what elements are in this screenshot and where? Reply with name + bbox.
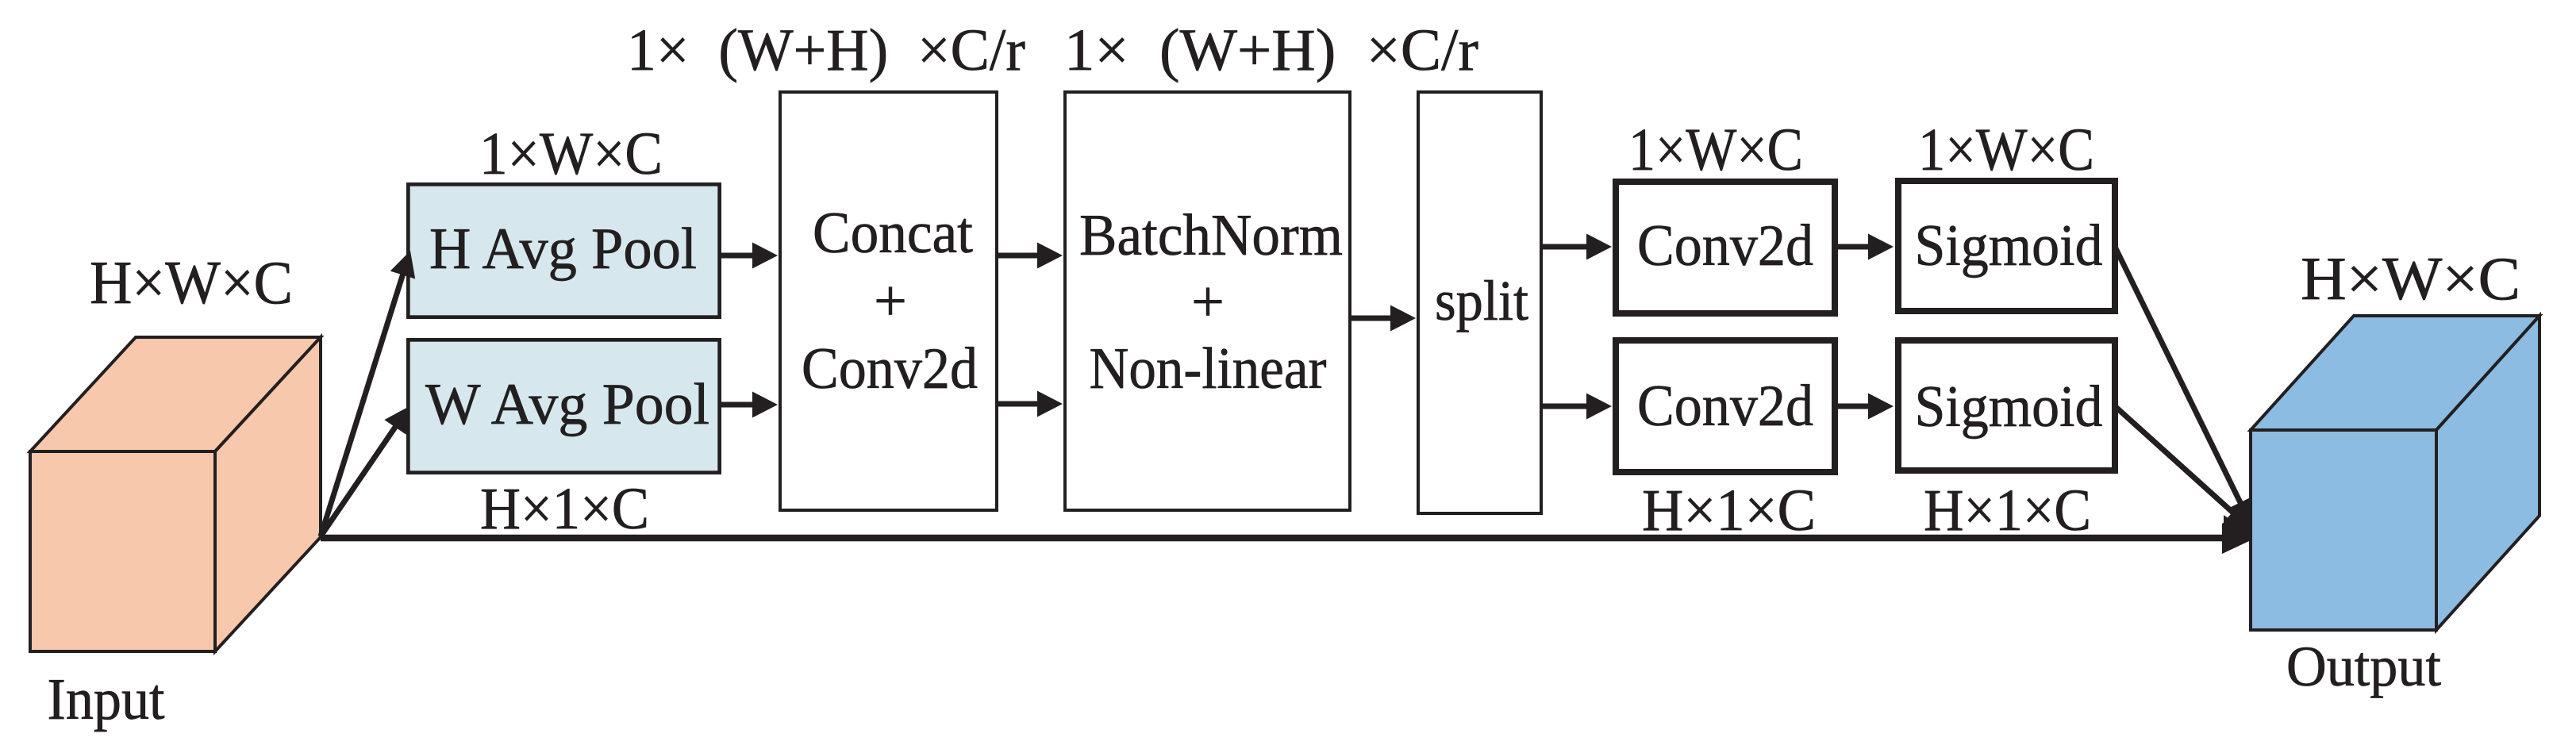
- arrow W Avg Pool to Concat: [718, 392, 778, 418]
- svg-text:H×1×C: H×1×C: [1924, 478, 2091, 544]
- svg-text:H×1×C: H×1×C: [1642, 478, 1816, 544]
- arrow split to Conv2d lower: [1540, 394, 1612, 420]
- arrow Concat to BatchNorm lower: [995, 391, 1063, 417]
- svg-text:H×1×C: H×1×C: [480, 476, 649, 542]
- box Sigmoid lower: [1898, 340, 2115, 471]
- svg-text:W Avg Pool: W Avg Pool: [425, 372, 709, 437]
- svg-text:1× (W+H) ×C/r: 1× (W+H) ×C/r: [1064, 17, 1478, 83]
- svg-text:Sigmoid: Sigmoid: [1915, 374, 2103, 440]
- box Conv2d upper: [1616, 182, 1835, 313]
- svg-text:1× (W+H) ×C/r: 1× (W+H) ×C/r: [627, 17, 1025, 83]
- svg-text:1×W×C: 1×W×C: [1628, 117, 1803, 183]
- box BatchNorm+Non-linear: [1065, 92, 1350, 510]
- box W Avg Pool: [408, 340, 719, 472]
- output cube side face: [2436, 316, 2539, 630]
- svg-text:H×W×C: H×W×C: [2301, 244, 2520, 313]
- arrow Conv2d to Sigmoid lower: [1835, 394, 1894, 420]
- box Sigmoid upper: [1898, 181, 2115, 311]
- arrow Sigmoid upper to output: [2115, 247, 2252, 525]
- input cube front face: [30, 451, 215, 651]
- arrow BatchNorm to split: [1348, 305, 1416, 332]
- svg-text:Sigmoid: Sigmoid: [1915, 213, 2103, 278]
- box split: [1418, 92, 1541, 513]
- svg-text:Output: Output: [2286, 635, 2441, 698]
- svg-text:Conv2d: Conv2d: [802, 336, 978, 401]
- svg-text:Conv2d: Conv2d: [1637, 213, 1813, 278]
- svg-text:H Avg Pool: H Avg Pool: [429, 217, 697, 282]
- svg-text:H×W×C: H×W×C: [90, 248, 293, 317]
- box Concat+Conv2d: [780, 92, 997, 510]
- box H Avg Pool: [408, 184, 719, 317]
- svg-text:+: +: [874, 269, 907, 334]
- svg-text:BatchNorm: BatchNorm: [1079, 203, 1343, 268]
- svg-text:Input: Input: [48, 667, 165, 732]
- svg-text:1×W×C: 1×W×C: [1918, 117, 2094, 183]
- arrow Conv2d to Sigmoid upper: [1835, 234, 1894, 260]
- input cube top face: [30, 337, 321, 451]
- arrow Concat to BatchNorm upper: [995, 243, 1063, 269]
- arrow input to H Avg Pool: [321, 251, 415, 536]
- svg-text:1×W×C: 1×W×C: [479, 121, 663, 187]
- arrow split to Conv2d upper: [1540, 234, 1612, 260]
- long skip-connection line input to output: [321, 510, 2252, 554]
- arrow H Avg Pool to Concat: [718, 243, 778, 269]
- output cube front face: [2251, 430, 2436, 630]
- svg-text:Conv2d: Conv2d: [1637, 374, 1813, 439]
- box Conv2d lower: [1616, 340, 1835, 472]
- svg-text:+: +: [1191, 270, 1225, 335]
- svg-text:Non-linear: Non-linear: [1090, 336, 1327, 401]
- svg-text:split: split: [1435, 269, 1528, 332]
- output cube top face: [2251, 316, 2539, 430]
- arrow input to W Avg Pool: [321, 406, 409, 536]
- arrow Sigmoid lower to output: [2115, 406, 2251, 529]
- input cube side face: [215, 337, 321, 651]
- svg-text:Concat: Concat: [813, 201, 973, 266]
